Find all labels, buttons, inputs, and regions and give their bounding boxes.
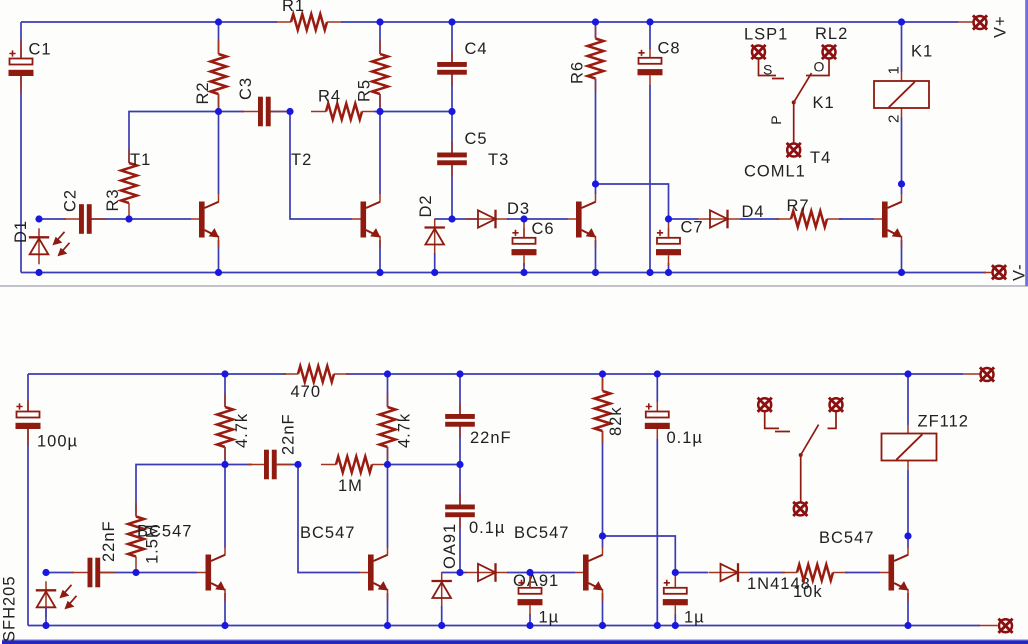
wire node to 1N4148 [675, 572, 708, 574]
junction bottom-circuit bottom rail x=675.3 [672, 622, 679, 629]
wire top rail right segment [341, 21, 958, 23]
svg-text:100µ: 100µ [37, 433, 78, 451]
wire 0.1u column [459, 465, 461, 573]
junction bottom-circuit base line x=530 [526, 569, 533, 576]
junction bottom-circuit mid node x=387.5 [384, 461, 391, 468]
svg-text:22nF: 22nF [280, 413, 298, 455]
wire component pin [984, 272, 993, 274]
junction bottom-circuit base line x=675.3 [672, 569, 679, 576]
capacitor 22nF input [72, 558, 115, 588]
wire left rail [20, 22, 22, 273]
terminal COML1 [787, 143, 801, 157]
svg-text:K1: K1 [813, 94, 835, 112]
junction bottom rail x=595.5 [592, 269, 599, 276]
capacitor C4 [437, 51, 467, 86]
resistor 4.7k second [380, 393, 396, 460]
wire R6 column [595, 22, 597, 184]
wire BC547-2 emitter [387, 593, 389, 626]
svg-text:R3: R3 [104, 188, 122, 211]
capacitor 1u second [663, 578, 688, 615]
wire collector branch to 1u-2 node [603, 536, 676, 573]
junction BC547-4 collector / relay [904, 532, 911, 539]
junction base line x=452 [448, 215, 455, 222]
junction top rail x=650 [646, 18, 653, 25]
wire bottom-circuit top rail left [28, 373, 286, 375]
resistor R4 [311, 104, 377, 120]
wire node to OA91-h [460, 572, 467, 574]
wire component pin [529, 573, 531, 588]
capacitor 22nF coupling [248, 450, 291, 480]
wire component pin [978, 625, 998, 627]
wire C4 column [451, 22, 453, 112]
wire component pin [523, 219, 525, 238]
wire component pin [197, 547, 225, 602]
junction bottom rail x=39 [35, 269, 42, 276]
terminal supply- bottom circuit [998, 619, 1012, 633]
svg-text:C7: C7 [681, 219, 704, 237]
terminal pad switch left [758, 398, 772, 412]
resistor 10k [782, 565, 848, 581]
wire photodiode to bottom rail [45, 607, 47, 626]
capacitor 22nF third [445, 403, 475, 438]
wire component pin [957, 21, 974, 23]
wire node to BC547-2 base [298, 465, 360, 573]
svg-text:K1: K1 [911, 43, 933, 61]
wire R5 column [379, 22, 381, 112]
wire T3 emitter [595, 240, 597, 273]
junction base line x=668.5 [665, 215, 672, 222]
capacitor 1u first [518, 578, 543, 615]
junction bottom-circuit base line x=46 [42, 569, 49, 576]
wire 22nF-3 column [459, 374, 461, 465]
wire C6 to bottom rail [523, 263, 525, 273]
terminal pad switch right [829, 398, 843, 412]
wire node to C4-C5 junction [380, 111, 452, 113]
junction bottom rail x=434.7 [431, 269, 438, 276]
svg-text:D3: D3 [507, 200, 530, 218]
wire component pin [963, 373, 981, 375]
wire BC547-3 emitter [602, 593, 604, 626]
photodiode D1 [29, 228, 70, 264]
svg-text:470: 470 [291, 383, 322, 401]
wire 0.1u column 2 [656, 374, 658, 626]
wire 82k column [602, 374, 604, 536]
svg-text:D1: D1 [12, 220, 30, 243]
capacitor C1 [9, 49, 34, 86]
svg-text:22nF: 22nF [470, 429, 512, 447]
capacitor C5 [437, 142, 467, 177]
transistor T4 [882, 202, 902, 238]
junction bottom-circuit top rail x=657.3 [654, 370, 661, 377]
svg-text:R5: R5 [356, 79, 374, 102]
resistor R6 [588, 25, 604, 92]
junction bottom rail x=524 [520, 269, 527, 276]
wire T2 emitter [379, 240, 381, 273]
terminal supply+ bottom circuit [980, 367, 994, 381]
switch contact K1 [759, 59, 830, 144]
junction bottom-circuit mid node x=298 [294, 461, 301, 468]
capacitor C3 [242, 97, 285, 127]
junction bottom rail x=650 [646, 269, 653, 276]
svg-text:1µ: 1µ [539, 609, 560, 627]
wire component pin [575, 547, 603, 602]
junction bottom-circuit bottom rail x=602.5 [599, 622, 606, 629]
resistor 4.7k first [217, 393, 233, 460]
wire T4 collector [901, 184, 903, 194]
svg-text:BC547: BC547 [137, 523, 192, 541]
svg-text:R4: R4 [318, 88, 341, 106]
wire T1 emitter [218, 240, 220, 273]
junction top rail x=595.5 [592, 18, 599, 25]
svg-text:2: 2 [886, 114, 903, 123]
svg-text:V-: V- [1011, 263, 1028, 281]
wire D2 to bottom rail [434, 253, 436, 273]
wire OA91-v top [442, 572, 460, 574]
wire T2 collector [379, 112, 381, 195]
svg-text:D2: D2 [417, 194, 435, 217]
resistor 470 [283, 366, 349, 382]
terminal V+ [973, 15, 987, 29]
svg-text:T2: T2 [291, 151, 312, 169]
junction mid node x=218.5 [215, 108, 222, 115]
wire R7 to T4 base [839, 218, 874, 220]
svg-text:C3: C3 [237, 77, 255, 100]
wire component pin [191, 193, 219, 248]
wire feedback to 1.5M [136, 465, 225, 517]
photodiode SFH205 [36, 581, 77, 617]
top window right edge [1025, 0, 1028, 286]
junction bottom rail x=380 [376, 269, 383, 276]
wire C6 node to T3 base [524, 218, 568, 220]
wire T1 collector [218, 112, 220, 195]
svg-text:0.1µ: 0.1µ [469, 519, 505, 537]
junction bottom-circuit bottom rail x=46 [42, 622, 49, 629]
wire bottom-circuit top rail right [346, 373, 963, 375]
capacitor 0.1u coupling [445, 494, 475, 529]
diode D2 [425, 219, 445, 255]
junction bottom-circuit bottom rail x=530 [526, 622, 533, 629]
wire C5 column [451, 112, 453, 220]
svg-text:0.1µ: 0.1µ [667, 429, 703, 447]
wire node to T2 base [290, 112, 352, 220]
diode D3 [466, 210, 508, 229]
svg-text:C2: C2 [62, 189, 80, 212]
bottom window bottom bar [2, 640, 1028, 644]
wire 4.7k column 1 [224, 374, 226, 465]
svg-text:V+: V+ [992, 15, 1010, 38]
wire T3 collector [595, 184, 597, 194]
wire ZF112 pin 1 [907, 374, 909, 425]
relay coil ZF112 [882, 434, 937, 461]
svg-text:ZF112: ZF112 [918, 413, 969, 431]
capacitor C7 [656, 228, 681, 265]
capacitor 0.1u second [645, 402, 670, 439]
junction bottom-circuit base line x=460 [456, 569, 463, 576]
junction base line x=524 [520, 215, 527, 222]
junction bottom-circuit base line x=136 [132, 569, 139, 576]
svg-text:T1: T1 [130, 151, 151, 169]
svg-text:C8: C8 [658, 40, 681, 58]
wire bottom-circuit bottom rail [28, 625, 980, 627]
svg-text:4.7k: 4.7k [233, 413, 251, 448]
wire 4.7k column 2 [387, 374, 389, 465]
wire ZF112 pin 2 [907, 470, 909, 536]
junction T4 collector / relay [898, 180, 905, 187]
junction bottom-circuit mid node x=460 [456, 461, 463, 468]
junction bottom-circuit bottom rail x=387.5 [384, 622, 391, 629]
transistor BC547 fourth [889, 555, 909, 591]
wire R2 column [218, 22, 220, 112]
junction BC547-3 collector branch [599, 532, 606, 539]
resistor R2 [211, 40, 227, 107]
svg-text:P: P [768, 114, 784, 124]
wire component pin [674, 573, 676, 588]
wire feedback node B to R3 [129, 112, 219, 164]
relay coil K1 [874, 81, 929, 108]
svg-text:R1: R1 [282, 0, 305, 15]
svg-text:1M: 1M [338, 477, 363, 495]
junction mid node x=452 [448, 108, 455, 115]
diode 1N4148 [709, 563, 751, 582]
wire photodiode to 22nF [46, 572, 74, 574]
svg-text:SFH205: SFH205 [1, 575, 19, 642]
wire R2 node to C3 [219, 111, 245, 113]
capacitor C2 [63, 204, 106, 234]
wire D3 to C6 node [507, 218, 524, 220]
svg-text:LSP1: LSP1 [744, 26, 788, 44]
transistor T1 [199, 202, 219, 238]
junction mid node x=290 [286, 108, 293, 115]
junction bottom-circuit bottom rail x=908 [904, 622, 911, 629]
wire component pin [352, 193, 380, 248]
junction bottom rail x=218.5 [215, 269, 222, 276]
wire relay pin 2 to T4 collector [901, 117, 903, 184]
transistor T2 [361, 202, 381, 238]
svg-text:OA91: OA91 [441, 523, 459, 569]
wire component pin [668, 219, 670, 238]
svg-text:T3: T3 [488, 151, 509, 169]
window separator line [0, 285, 1028, 287]
svg-text:1: 1 [886, 65, 903, 74]
terminal V- [992, 265, 1006, 279]
wire top rail left segment [21, 21, 277, 23]
terminal RL2 [822, 45, 836, 59]
wire D1 to C2 [39, 218, 66, 220]
wire C8 column [649, 22, 651, 273]
junction T3 collector branch [592, 180, 599, 187]
resistor R5 [372, 40, 388, 107]
svg-text:BC547: BC547 [514, 524, 569, 542]
junction top rail x=452 [448, 18, 455, 25]
wire 22nF coupling out [277, 464, 298, 466]
diode D4 [698, 210, 740, 229]
wire OA91-v to bottom rail [441, 606, 443, 626]
wire BC547-1 emitter [224, 593, 226, 626]
svg-text:S: S [763, 62, 773, 78]
svg-text:RL2: RL2 [815, 25, 848, 43]
wire 1M to 4.7k node [384, 464, 388, 466]
diode OA91 vertical [432, 572, 452, 608]
wire BC547-4 collector [907, 536, 909, 548]
resistor R7 [776, 211, 842, 227]
wire R4 to R5 node [374, 111, 380, 113]
junction bottom-circuit top rail x=460 [456, 370, 463, 377]
junction bottom-circuit mid node x=225 [221, 461, 228, 468]
junction top rail x=901.5 [898, 18, 905, 25]
svg-text:4.7k: 4.7k [396, 413, 414, 448]
junction top rail x=380 [376, 18, 383, 25]
junction bottom-circuit top rail x=602.5 [599, 370, 606, 377]
junction bottom-circuit bottom rail x=657.3 [654, 622, 661, 629]
diode OA91 horizontal [466, 563, 508, 582]
wire 1u-2 to bottom rail [674, 614, 676, 626]
svg-text:BC547: BC547 [819, 529, 874, 547]
resistor 1M [321, 457, 387, 473]
svg-text:C4: C4 [465, 40, 488, 58]
wire component pin [27, 400, 29, 446]
capacitor C8 [638, 48, 663, 85]
terminal pad switch common [793, 502, 807, 516]
capacitor C6 [512, 228, 537, 265]
svg-text:C5: C5 [465, 130, 488, 148]
svg-text:R6: R6 [569, 61, 587, 84]
switch contact bottom [765, 411, 836, 502]
junction bottom-circuit top rail x=225 [221, 370, 228, 377]
wire node to D4 [669, 218, 699, 220]
wire to BC547-3 base [530, 572, 575, 574]
svg-text:C6: C6 [532, 220, 555, 238]
svg-text:1µ: 1µ [684, 609, 705, 627]
wire node to 22nF-0.1u junction [388, 464, 461, 466]
transistor T3 [576, 202, 596, 238]
svg-text:R7: R7 [787, 197, 810, 215]
junction base line x=39 [35, 215, 42, 222]
junction base line x=129 [125, 215, 132, 222]
wire bottom rail V- [21, 272, 986, 274]
wire D2 top to D3 [435, 218, 478, 220]
terminal LSP1 [751, 45, 765, 59]
resistor 1.5M [128, 503, 144, 570]
wire OA91-h to 1u node [507, 572, 530, 574]
transistor BC547 first [206, 555, 226, 591]
wire 1N4148 to 10k [750, 572, 785, 574]
transistor BC547 third [583, 555, 603, 591]
wire 22nF to 1.5M node [100, 572, 136, 574]
capacitor 100u [16, 402, 41, 439]
resistor R3 [121, 149, 137, 216]
wire BC547-3 collector [602, 536, 604, 548]
wire relay pin 1 [901, 22, 903, 72]
wire component pin [901, 72, 903, 117]
junction mid node x=380 [376, 108, 383, 115]
wire component pin [874, 193, 902, 248]
resistor R1 [276, 14, 342, 30]
junction top rail x=218.5 [215, 18, 222, 25]
wire D4 to R7 [740, 218, 779, 220]
wire 10k to BC547-4 base [845, 572, 880, 574]
transistor BC547 second [368, 555, 388, 591]
resistor 82k [595, 377, 611, 444]
junction bottom-circuit bottom rail x=225 [221, 622, 228, 629]
wire component pin [907, 425, 909, 470]
wire BC547-1 collector [224, 465, 226, 548]
wire C2 to R3 node [92, 218, 130, 220]
wire component pin [360, 547, 388, 602]
wire component pin [880, 547, 908, 602]
wire component pin [568, 193, 596, 248]
wire BC547-4 emitter [907, 593, 909, 626]
wire R3 node to T1 base [129, 218, 191, 220]
wire node to 22nF coupling [225, 464, 252, 466]
svg-text:O: O [814, 59, 826, 75]
wire T4 emitter [901, 240, 903, 273]
wire C7 to bottom rail [668, 263, 670, 273]
junction bottom-circuit top rail x=387.5 [384, 370, 391, 377]
svg-text:10k: 10k [793, 583, 823, 601]
svg-text:T4: T4 [810, 149, 831, 167]
svg-text:82k: 82k [607, 406, 625, 436]
wire bottom-circuit left rail [27, 374, 29, 626]
wire 1u-1 to bottom rail [529, 614, 531, 626]
svg-text:BC547: BC547 [300, 524, 355, 542]
wire component pin [20, 40, 22, 94]
wire C3 to node [271, 111, 290, 113]
svg-text:COML1: COML1 [744, 163, 806, 181]
wire BC547-2 collector [387, 465, 389, 548]
junction bottom rail x=901.5 [898, 269, 905, 276]
svg-text:22nF: 22nF [100, 520, 118, 562]
wire collector branch to C7-D4 node [596, 184, 669, 219]
junction bottom rail x=668.5 [665, 269, 672, 276]
junction bottom-circuit top rail x=908 [904, 370, 911, 377]
svg-text:C1: C1 [29, 41, 52, 59]
junction bottom-circuit bottom rail x=441.7 [438, 622, 445, 629]
svg-text:R2: R2 [194, 81, 212, 104]
wire to BC547-1 base [136, 572, 197, 574]
